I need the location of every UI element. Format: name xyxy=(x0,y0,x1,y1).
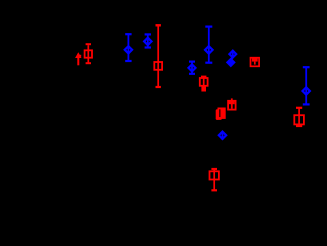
blue point B6 xyxy=(227,57,234,66)
red errorbar point R3 (tall bar) xyxy=(154,25,162,87)
blue errorbar point B2 xyxy=(144,34,151,47)
blue errorbar point B7 xyxy=(303,67,310,104)
blue errorbar point B1 xyxy=(125,34,132,61)
blue point B8 xyxy=(219,131,226,140)
red point R6 (overlapping blob) xyxy=(216,108,225,120)
blue point B5 xyxy=(229,51,236,59)
red point R7 xyxy=(251,58,260,67)
red errorbar point R2 xyxy=(85,44,92,63)
red errorbar point R9 xyxy=(210,169,219,190)
red errorbar point R5 xyxy=(228,98,236,109)
red errorbar point R4 (square with blob below) xyxy=(200,77,208,92)
red limit arrow at x=78 xyxy=(75,52,81,65)
red errorbar point R8 xyxy=(294,108,304,126)
blue errorbar point B4 xyxy=(189,62,196,74)
blue errorbar point B3 xyxy=(205,27,213,63)
